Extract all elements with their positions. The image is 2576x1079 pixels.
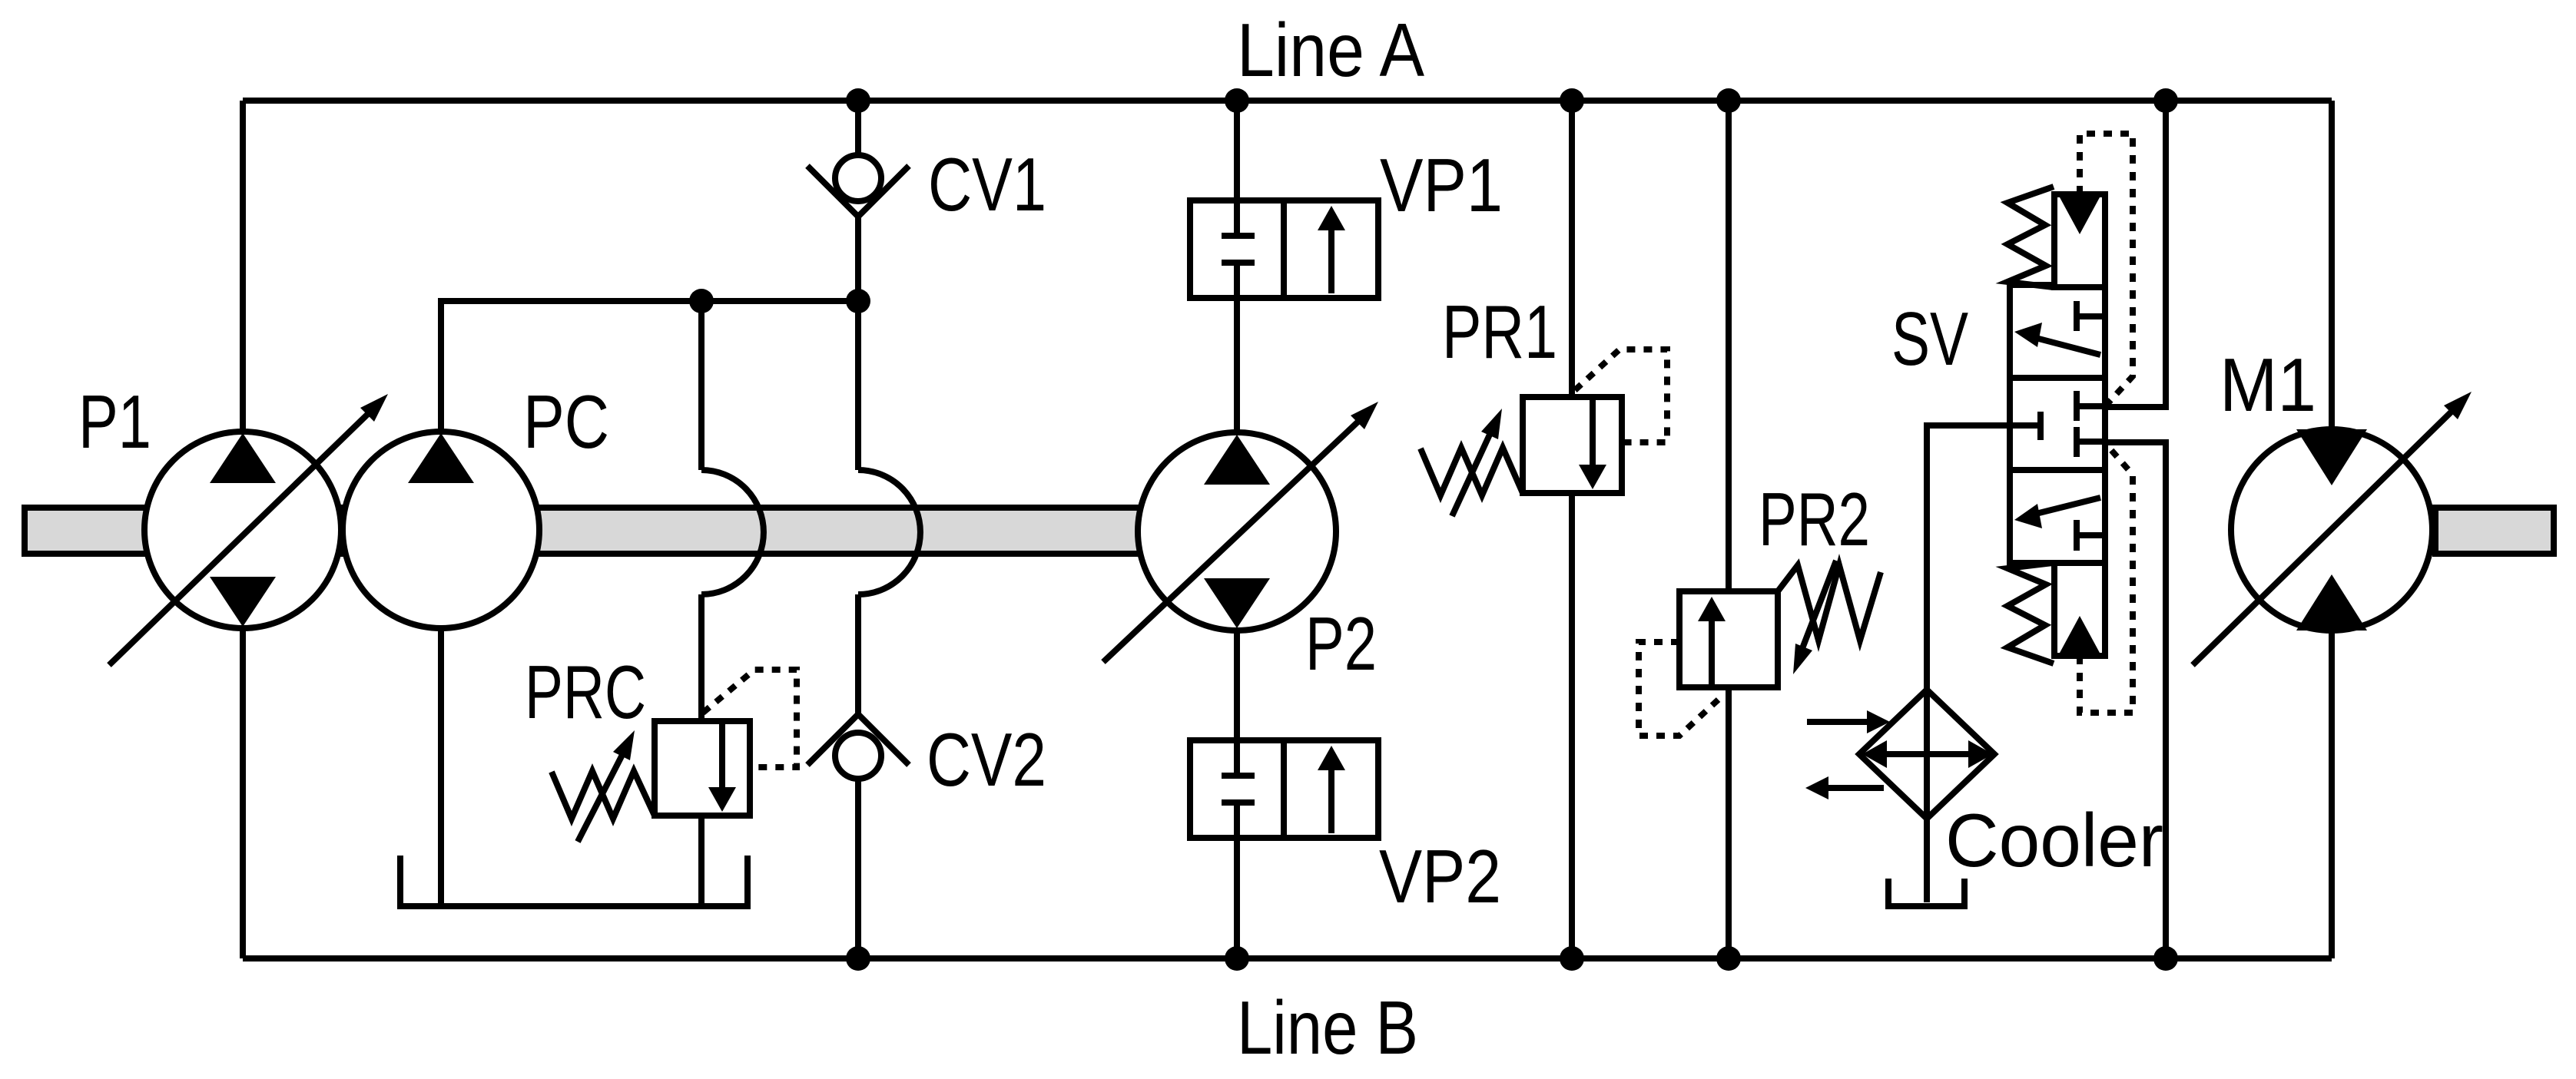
wire SV right lower port to Line B xyxy=(2105,442,2166,958)
variable arrow of P1 xyxy=(109,394,388,665)
variable arrow of M1 xyxy=(2193,392,2472,665)
SV box1 blocked port T xyxy=(2077,301,2105,331)
svg-text:PR1: PR1 xyxy=(1442,290,1557,374)
svg-text:VP2: VP2 xyxy=(1379,834,1501,918)
svg-text:SV: SV xyxy=(1891,296,1968,381)
svg-text:P1: P1 xyxy=(78,379,151,464)
wire Line B bottom bus xyxy=(243,955,2332,962)
pump PC circle xyxy=(343,432,539,628)
SV box3 blocked port T xyxy=(2077,520,2105,551)
cooler diamond xyxy=(1859,690,1994,819)
svg-text:VP1: VP1 xyxy=(1380,143,1503,227)
check valve CV1 xyxy=(807,155,909,217)
wire PR1 branch lower xyxy=(1569,493,1575,958)
pump P2 circle xyxy=(1138,432,1336,631)
wire hop over shaft at x=1117 xyxy=(858,470,920,594)
wire PC case drain to tank xyxy=(438,628,444,903)
wire CV line mid segment above shaft xyxy=(855,301,861,470)
wire PRC branch below shaft xyxy=(698,594,705,721)
wire VP1 to P2 top xyxy=(1234,298,1240,434)
wire P1 bottom to Line B xyxy=(240,628,246,958)
motor M1 circle xyxy=(2231,429,2432,631)
svg-text:Line B: Line B xyxy=(1237,985,1418,1070)
wire VP2 to Line B xyxy=(1234,838,1240,958)
relief valve PRC xyxy=(552,670,797,842)
wire hop over shaft at x=913 xyxy=(701,470,764,594)
SV bottom pilot box xyxy=(2054,563,2105,656)
pump PC triangle xyxy=(408,433,474,483)
cooler inlet arrow xyxy=(1807,710,1890,733)
wire CV2 bottom to Line B xyxy=(855,781,861,958)
motor M1 triangles xyxy=(2296,429,2367,631)
svg-text:CV2: CV2 xyxy=(927,717,1046,802)
svg-text:M1: M1 xyxy=(2220,343,2316,427)
svg-text:Line A: Line A xyxy=(1237,8,1425,92)
wire SV right upper port to Line A xyxy=(2105,101,2166,407)
check valve CV2 xyxy=(807,714,909,779)
wire PC top line to junction y=392 xyxy=(441,301,858,432)
SV box2 left blocked port T xyxy=(2010,412,2041,440)
SV box2 right upper blocked port T xyxy=(2077,391,2105,421)
SV box2 right lower blocked port T xyxy=(2077,427,2105,457)
relief valve PR1 xyxy=(1421,349,1667,516)
wire SV left port to cooler xyxy=(1927,425,2010,902)
SV bottom spring xyxy=(2007,563,2054,664)
valve VP1 xyxy=(1190,200,1378,298)
shaft (gray) between P1/PC/P2 xyxy=(25,508,1237,554)
wire P2 bottom to VP2 xyxy=(1234,631,1240,740)
wire CV line below shaft to CV2 xyxy=(855,594,861,713)
wire P2/VP1 branch from Line A xyxy=(1234,101,1240,200)
pump P2 triangles xyxy=(1204,435,1270,628)
svg-text:P2: P2 xyxy=(1305,601,1377,686)
SV top pilot dotted line xyxy=(2080,134,2133,405)
tank under cooler xyxy=(1888,879,1964,906)
wire PR2 branch upper xyxy=(1726,101,1732,591)
wire CV1 to junction xyxy=(855,217,861,301)
pump P1 circle xyxy=(144,432,341,628)
cooler outlet arrow xyxy=(1805,776,1884,799)
svg-text:CV1: CV1 xyxy=(928,142,1046,227)
tank under PC and PRC xyxy=(400,856,748,906)
pump P1 triangles xyxy=(210,433,276,627)
wire CV1 branch upper xyxy=(855,101,861,153)
SV top spring xyxy=(2007,187,2054,287)
directional valve SV body xyxy=(2010,285,2105,563)
svg-text:Cooler: Cooler xyxy=(1945,798,2163,882)
wire PRC outlet to tank xyxy=(698,816,705,903)
variable arrow of P2 xyxy=(1103,402,1378,662)
SV box1 flow arrow xyxy=(2033,337,2100,355)
cooler internal double arrow xyxy=(1862,740,1993,768)
wire PR1 branch upper xyxy=(1569,101,1575,397)
svg-text:PC: PC xyxy=(523,379,609,464)
relief valve PR2 xyxy=(1639,561,1881,736)
wire PRC branch from junction xyxy=(698,301,705,470)
wire PR2 branch lower xyxy=(1726,687,1732,958)
valve VP2 xyxy=(1190,740,1378,838)
shaft (gray) of M1 xyxy=(2435,508,2554,554)
wire Line A top bus xyxy=(243,98,2332,104)
wire P1 left branch (Line A to P1 top) xyxy=(240,101,246,432)
svg-text:PRC: PRC xyxy=(525,650,646,734)
SV top pilot box xyxy=(2054,194,2105,287)
SV box3 flow arrow xyxy=(2033,498,2100,515)
wire M1 top branch xyxy=(2329,101,2335,430)
wire M1 bottom branch xyxy=(2329,630,2335,958)
SV bottom pilot dotted line xyxy=(2080,444,2133,713)
svg-text:PR2: PR2 xyxy=(1759,477,1870,561)
